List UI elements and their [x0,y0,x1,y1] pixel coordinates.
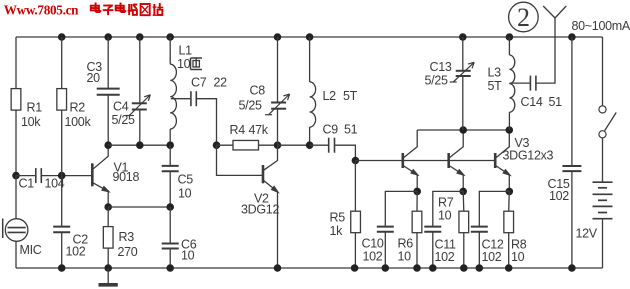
junction collector bus L3 [506,126,514,134]
junction R3 ground rail [104,264,112,272]
wire C7 to R4 node [197,99,217,146]
svg-text:C1: C1 [19,177,35,191]
label V3 [515,136,530,150]
junction L3 top rail [506,33,514,41]
svg-text:47k: 47k [249,123,269,137]
wire C10 to ground rail [384,232,386,268]
svg-text:C4: C4 [113,100,129,114]
label C6 [181,238,197,252]
label C7 value 22 [214,76,228,90]
transistor V3c 3DG12x3 [495,147,512,177]
wire L2 bottom lead [309,127,311,145]
label C10 [362,237,384,251]
wire C13 top lead [462,37,464,71]
trimmer capacitor C8 5/25 [265,94,290,115]
label C7 [191,76,207,90]
wire node to R8 [508,191,511,211]
wire emitter to C10 [385,191,417,226]
wire node to R7 [462,191,465,211]
wire node to C6 [169,207,171,244]
battery GB 12V [593,182,613,219]
wire V1 collector [107,145,109,156]
svg-text:R6: R6 [398,237,414,251]
label C1 [19,177,35,191]
label C11 [435,238,456,252]
top supply rail [16,36,603,38]
wire C13 bottom lead [462,76,464,130]
wire C9 to base bus [335,145,355,160]
svg-text:102: 102 [363,250,383,264]
svg-text:100k: 100k [65,115,92,129]
wire R2 bottom lead [61,110,63,176]
svg-text:102: 102 [66,245,86,259]
transistor V2 3DG12 [263,161,280,194]
label C8 [250,84,266,98]
wire L3 bottom lead [508,112,510,130]
svg-text:51: 51 [549,95,563,109]
wire L2 top lead [309,37,311,82]
junction LC line C4 [136,141,144,149]
wire V2 base feed [217,145,263,175]
junction R7 ground [460,264,468,272]
capacitor C3 [97,89,120,95]
transistor V3b [449,147,466,177]
wire rail to switch [602,37,604,106]
svg-text:C9: C9 [323,123,339,137]
wire node to R4 [217,144,234,146]
label C5 value 10 [178,187,192,201]
svg-text:10: 10 [178,187,192,201]
svg-text:MIC: MIC [20,243,42,257]
wire switch to battery [602,138,604,182]
junction C6 ground [166,264,174,272]
wire V2 collector node to L2 node [278,144,310,146]
inductor L1 [170,64,176,129]
label C6 value 10 [181,249,195,263]
svg-text:102: 102 [435,250,455,264]
svg-text:5/25: 5/25 [425,74,448,88]
junction base bus R5 node [352,157,360,165]
inductor L2 [310,82,316,127]
wire left edge top [15,37,17,89]
wire emitter lead R7 [462,175,464,191]
resistor R8 [504,211,514,233]
label R7 [438,196,454,210]
svg-text:C10: C10 [362,237,384,251]
wire L1 node to C5 [169,145,171,166]
junction C15 top rail [568,33,576,41]
svg-text:Www.7805.cn: Www.7805.cn [4,2,79,17]
svg-text:C7: C7 [191,76,207,90]
wire C15 to ground rail [571,171,573,268]
label C3 value 20 [87,71,101,85]
junction L1 top rail [166,33,174,41]
junction C12 ground [476,264,484,272]
wire R5 to ground rail [354,233,356,268]
capacitor C12 [471,227,488,232]
wire C11 to ground rail [432,232,434,268]
wire output stage base bus [355,160,495,162]
svg-text:3DG12: 3DG12 [241,203,279,217]
label R4 value 47k [249,123,269,137]
wire node to C2 [61,176,63,227]
svg-text:5/25: 5/25 [239,99,262,113]
junction C2 ground [58,264,66,272]
svg-text:22: 22 [214,76,228,90]
svg-text:10k: 10k [21,115,41,129]
wire V2 collector [277,145,279,161]
svg-text:102: 102 [549,189,569,203]
resistor R7 [459,211,469,233]
wire T2 collector [462,130,464,147]
capacitor C14 [530,76,536,91]
junction V1 emitter node [104,203,112,211]
junction emitter node R7 [459,188,467,196]
website text chinese part [91,3,163,16]
wire emitter to C5C6 node [108,206,170,208]
transistor V1 9018 [92,156,111,193]
svg-text:R4: R4 [230,123,246,137]
junction emitter node R8 [506,188,514,196]
label C2 value 102 [66,245,86,259]
label R5 value 1k [330,224,344,238]
wire L3 top lead [508,37,510,55]
label C4 value 5/25 [112,113,135,127]
label R1 value 10k [21,115,41,129]
wire C5 to emitter node [169,171,171,207]
label R1 [27,101,43,115]
svg-text:10: 10 [438,209,452,223]
wire oscillator tank line [108,144,170,146]
label L3 value 5T [488,79,503,93]
wire emitter to C12 [479,191,509,226]
label MIC [20,243,42,257]
wire C8 top lead [277,37,279,103]
wire C3 to LC line [107,95,109,146]
junction R5 ground [351,264,359,272]
capacitor C5 [162,166,179,171]
wire R6 to ground rail [416,233,418,268]
wire C3 top lead [107,37,109,89]
svg-text:10: 10 [398,250,412,264]
inductor L3 [509,55,514,112]
label L3 [488,66,502,80]
ground symbol [99,268,118,285]
resistor R3 [103,227,113,249]
capacitor C9 [329,138,335,153]
label C5 [178,173,194,187]
label R3 value 270 [118,245,138,259]
wire C15 top lead [571,37,573,166]
wire L1 tap to C7 [171,98,191,100]
capacitor C1 [36,168,42,183]
wire node to MIC [15,176,17,219]
junction collector bus C13 [459,126,467,134]
label C2 [73,233,89,247]
label C9 [323,123,339,137]
label C10 value 102 [363,250,383,264]
junction L2 tank node [306,141,314,149]
label V2 type 3DG12 [241,203,279,217]
trimmer capacitor C4 5/25 [126,95,151,116]
wire R2 top lead [61,37,63,89]
wire C4 top lead [139,37,141,103]
resistor R5 [351,211,361,233]
svg-text:51: 51 [344,123,358,137]
svg-text:5T: 5T [343,89,358,103]
wire T3 collector [508,130,510,147]
svg-text:1k: 1k [330,224,344,238]
resistor R1 [11,89,21,111]
label R2 value 100k [65,115,92,129]
wire C12 to ground rail [478,232,480,268]
wire C6 to ground rail [169,249,171,269]
junction LC line C3 [104,141,112,149]
junction C3 top rail [104,33,112,41]
label R4 [230,123,246,137]
label C12 value 102 [482,250,502,264]
junction R6 ground [413,264,421,272]
svg-text:270: 270 [118,245,138,259]
wire emitter lead R8 [508,175,510,191]
junction LC line L1 [166,141,174,149]
label C8 value 5/25 [239,99,262,113]
label L2 value 5T [343,89,358,103]
wire R4 to V2 collector node [259,144,278,146]
wire collector bus [417,129,509,131]
label R8 [511,238,527,252]
wire emitter to R3 [107,207,109,227]
junction L2 top rail [306,33,314,41]
antenna [543,6,566,18]
junction V2 emitter ground [274,264,282,272]
switch S1 [599,106,616,138]
wire C8 bottom lead [277,109,279,146]
svg-text:L2: L2 [323,89,337,103]
capacitor C2 [53,227,70,233]
svg-text:2: 2 [517,3,530,32]
label V1 type 9018 [113,170,140,184]
resistor R2 [57,89,67,111]
label V3 type 3DG12x3 [503,149,554,163]
wire C14 to antenna [537,18,556,83]
wire R3 to rail [107,248,109,268]
wire battery to ground rail [602,219,604,268]
svg-text:R1: R1 [27,101,43,115]
label R2 [70,101,86,115]
wire C2 to ground rail [61,232,63,268]
label R3 [119,230,135,244]
resistor R4 [233,140,259,150]
label R6 [398,237,414,251]
svg-text:12V: 12V [576,227,598,241]
junction C11 ground [429,264,437,272]
label R5 [330,211,346,225]
svg-text:L1: L1 [179,44,193,58]
junction C8 top rail [274,33,282,41]
junction C10 ground [382,264,390,272]
wire node to R5 [354,161,356,212]
label supply current 80~100mA [572,19,630,33]
junction V2 collector node [274,141,282,149]
svg-text:R5: R5 [330,211,346,225]
trimmer capacitor C13 5/25 [450,62,475,82]
svg-text:5T: 5T [488,79,503,93]
label L1 value unit turns char [191,58,203,70]
svg-text:3DG12x3: 3DG12x3 [503,149,554,163]
capacitor C6 [162,244,179,249]
label C11 value 102 [435,250,455,264]
svg-text:R2: R2 [70,101,86,115]
wire emitter lead R6 [416,175,418,191]
resistor R6 [412,211,422,233]
wire C1 to V1 base [42,175,91,177]
label R6 value 10 [398,250,412,264]
junction C15 ground [568,264,576,272]
wire R8 to ground rail [508,233,510,268]
junction emitter node R6 [413,188,421,196]
wire C4 bottom lead [139,110,141,146]
label battery 12V [576,227,598,241]
svg-text:10: 10 [511,250,525,264]
wire T1 collector [416,130,418,147]
svg-text:20: 20 [87,71,101,85]
junction C7 R4 node [213,141,221,149]
bottom ground rail [16,267,603,269]
wire L1 bottom lead [169,129,171,145]
label L2 [323,89,337,103]
junction R2 top [58,33,66,41]
wire MIC to ground rail [15,241,17,268]
label C1 value 104 [45,177,65,191]
svg-text:C13: C13 [430,60,452,74]
microphone MIC [3,219,28,242]
capacitor C11 [424,227,441,232]
wire R1 to C1 node [15,110,17,176]
svg-text:C8: C8 [250,84,266,98]
svg-text:R7: R7 [438,196,454,210]
junction C13 top rail [459,33,467,41]
wire R7 to ground rail [463,233,465,268]
label C13 [430,60,452,74]
label V2 [254,192,269,206]
junction R8 ground [505,264,513,272]
svg-text:C14: C14 [521,95,543,109]
svg-text:C5: C5 [178,173,194,187]
junction C1 left [12,172,20,180]
svg-text:R3: R3 [119,230,135,244]
label C9 value 51 [344,123,358,137]
svg-text:9018: 9018 [113,170,140,184]
wire C1 left lead [16,175,35,177]
label V1 [114,161,129,175]
label C3 [87,60,103,74]
wire L1 top lead [169,37,171,64]
transistor V3a [403,147,420,177]
label C13 value 5/25 [425,74,448,88]
junction C4 top rail [136,33,144,41]
wire V2 emitter to ground rail [277,192,279,269]
schematic number 2 marker [509,2,539,32]
label R7 value 10 [438,209,452,223]
svg-text:10: 10 [177,57,191,71]
capacitor C7 [191,91,196,106]
label L1 value 10 [177,57,191,71]
junction C5 C6 emitter node [166,203,174,211]
svg-text:5/25: 5/25 [112,113,135,127]
wire tank node to C9 [310,144,329,146]
label L1 [179,44,193,58]
label R8 value 10 [511,250,525,264]
svg-text:10: 10 [181,249,195,263]
wire emitter to C11 [433,191,463,226]
label C15 [548,177,570,191]
label C4 [113,100,129,114]
wire V1 emitter [107,190,109,207]
svg-text:80~100mA: 80~100mA [572,19,630,33]
capacitor C15 [562,166,581,171]
label C12 [482,238,504,252]
svg-text:L3: L3 [488,66,502,80]
svg-text:102: 102 [482,250,502,264]
label C14 [521,95,543,109]
capacitor C10 [377,227,394,232]
label C14 value 51 [549,95,563,109]
wire L3 tap to C14 [509,82,529,84]
label C15 value 102 [549,189,569,203]
wire node to R6 [416,191,418,211]
website text latin part [4,2,79,17]
junction C1 right node [58,172,66,180]
